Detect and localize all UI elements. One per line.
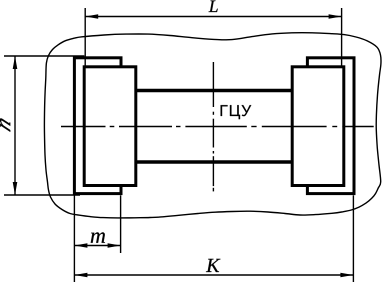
arrow n top: [13, 56, 18, 69]
left inner plate (back rectangle): [74, 58, 121, 194]
arrow m left: [74, 243, 87, 248]
right outer plate (front rectangle): [292, 67, 344, 186]
vertical centerline (dash-dot): [212, 62, 214, 191]
extension line L right: [341, 8, 343, 67]
label n: [0, 117, 10, 131]
extension line K left (shared with m left): [73, 195, 75, 282]
extension line n bottom: [4, 194, 80, 196]
dimension line L: [85, 16, 341, 18]
label m: [91, 232, 105, 242]
left outer plate (front rectangle): [84, 67, 136, 186]
arrow L right: [329, 14, 342, 19]
arrow L left: [85, 14, 98, 19]
extension line L left: [84, 8, 86, 67]
arrow n bottom: [13, 182, 18, 195]
extension line m right: [120, 195, 122, 253]
right inner plate (back rectangle): [307, 58, 354, 194]
label L: [209, 1, 218, 12]
horizontal centerline (dash-dot): [61, 126, 374, 128]
arrow K right: [340, 273, 353, 278]
label K: [206, 259, 220, 272]
arrow K left: [74, 273, 87, 278]
arrow m right: [108, 243, 121, 248]
dimension line K: [74, 274, 353, 276]
dimension line n: [14, 56, 16, 195]
connecting bar bottom line: [136, 160, 292, 163]
break line (wavy boundary of broken-out view): [44, 33, 381, 218]
connecting bar top line: [136, 89, 292, 92]
marking text ГЦУ: [221, 105, 252, 119]
dimension line m: [74, 245, 120, 247]
extension line K right: [352, 195, 354, 282]
extension line n top: [4, 55, 84, 57]
